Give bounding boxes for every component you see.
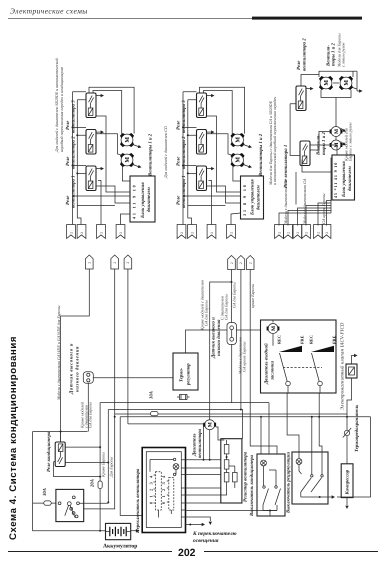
switch arm 1 (280, 353, 288, 381)
pivot contact 2 (318, 381, 323, 386)
svg-text:GA для Европы: GA для Европы (224, 294, 229, 320)
svg-text:торы 1 и 2: торы 1 и 2 (321, 132, 327, 155)
connector flag down 3 (GA) (293, 225, 302, 239)
wire lower stub A (183, 195, 241, 197)
wire A3 down to bus (127, 269, 129, 424)
wire relay1 to ECU top (311, 145, 338, 155)
svg-text:Модели с двигателями GA14DE и: Модели с двигателями GA14DE и GA16DE для… (56, 305, 61, 401)
resistor element 2 (224, 460, 229, 469)
connector flag down 2 (GA) (284, 225, 293, 239)
compressor ground arrow (346, 498, 348, 505)
svg-text:Термо-: Термо- (179, 367, 185, 382)
svg-text:GA кроме Европы: GA кроме Европы (321, 193, 326, 224)
relay R2 fan relay 2 (86, 130, 96, 155)
relay R1 arrow (96, 168, 103, 170)
wire flag3 to ECU (298, 208, 332, 226)
svg-text:Электрические схемы: Электрические схемы (10, 7, 88, 16)
wire flag2 to ECU (288, 211, 331, 226)
switch wafer 1 (dashed) (156, 472, 162, 510)
wire B3 down to AC switch (250, 270, 277, 455)
svg-text:Переключатель вентилятора: Переключатель вентилятора (135, 468, 141, 534)
connector flag 1 down (67, 225, 76, 239)
wire left loop: battery feed (33, 431, 88, 433)
ECU box Блок управления двигателем (GA) (332, 155, 355, 200)
recirc internal wires (299, 452, 327, 497)
ECU box Блок управления двигателем (CD) (241, 176, 264, 219)
svg-text:Для Европы: Для Европы (109, 456, 114, 478)
ignition contacts (58, 502, 61, 505)
svg-text:вентилятора 1: вентилятора 1 (181, 175, 187, 208)
svg-text:Блок управления: Блок управления (341, 161, 347, 198)
svg-text:Реле: Реле (176, 120, 182, 130)
connector flag 2 down (77, 225, 86, 239)
connector flag 2 down (188, 225, 197, 239)
wire flag3 up to R1 coil (209, 181, 212, 225)
wire lower stub A (73, 195, 131, 197)
relay fan relay 2 (296, 86, 306, 111)
svg-text:10А: 10А (149, 391, 155, 399)
connector flag down 1 (GA) (275, 225, 284, 239)
footer rule right (204, 551, 378, 553)
svg-text:вентилятора: вентилятора (198, 428, 203, 458)
fuse 10A (151, 411, 158, 415)
svg-text:202: 202 (178, 547, 196, 559)
wire R2 to motor2 (96, 134, 122, 155)
fan motor 1 arrow (242, 144, 250, 147)
lamp in fan switch (173, 464, 179, 470)
svg-text:Датчик высокого и: Датчик высокого и (69, 343, 75, 395)
bus taps to recirc (311, 417, 313, 452)
relay R2 arrow (96, 131, 103, 133)
wire B2 down to bus (240, 270, 242, 410)
wire riser to flags bundle (295, 172, 297, 205)
M motor 2 (330, 140, 343, 150)
blower motor Двигатель вентилятора (203, 420, 216, 430)
pivot contact 1 (286, 381, 291, 386)
relay R3 arrow (207, 95, 214, 97)
connector flag 3 down (97, 225, 106, 239)
fan motor 1 (120, 133, 134, 147)
svg-text:двигателем: двигателем (347, 165, 353, 191)
up connector flag B2 (237, 256, 245, 270)
svg-text:30А: 30А (42, 488, 48, 497)
svg-text:двигателем: двигателем (146, 186, 152, 212)
wire loop top B (93, 91, 122, 135)
svg-text:Вентиляторы 1 и 2: Вентиляторы 1 и 2 (148, 133, 154, 177)
wire left vertical 1 to flag1 (73, 92, 87, 225)
fan motor right (crossed) (339, 76, 353, 90)
wire M motors left feed (311, 132, 331, 151)
svg-text:GA для Европы: GA для Европы (204, 300, 209, 326)
battery right arrow (131, 530, 137, 532)
relay R3 fan relay 3 (CD) (197, 93, 207, 118)
connector flag 4 down (116, 225, 125, 239)
bundle riser into ECU (331, 158, 332, 213)
wire flag4 to ECU (306, 206, 331, 226)
wire pivot1 down to recirc switch (287, 386, 299, 452)
svg-text:Европы с левым рулем: Европы с левым рулем (348, 122, 353, 162)
wire A1 down, bend left, down to AC relay (61, 269, 90, 442)
relay R2 arrow (207, 131, 214, 133)
svg-text:41 11 9 10: 41 11 9 10 (132, 183, 137, 219)
wire flag4 up to ECU pin (121, 214, 131, 225)
svg-text:Реле: Реле (65, 195, 71, 205)
svg-text:двигателем: двигателем (256, 184, 262, 210)
up connector flag A2 (111, 255, 119, 269)
battery internal wire (106, 531, 131, 533)
bus y414 with 10A fuse (115, 413, 347, 415)
svg-text:Реле: Реле (65, 120, 71, 130)
relay fan relay 1 (300, 141, 310, 166)
wire flag5 to ECU (318, 203, 331, 226)
wire pivot2 down to bus (319, 386, 322, 452)
up connector flag A3 (124, 255, 132, 269)
AC switch internal wires (263, 466, 277, 511)
svg-text:Выключатель кондиционера: Выключатель кондиционера (249, 454, 255, 517)
svg-text:FRE: FRE (300, 335, 305, 344)
solenoid valve box IACV-FICD (346, 364, 357, 378)
svg-text:Блок управления: Блок управления (140, 182, 146, 219)
M motor 1 (330, 127, 343, 137)
valve top arrow (352, 356, 357, 365)
svg-text:0 1 2 3 4: 0 1 2 3 4 (161, 474, 166, 504)
svg-text:освещения: освещения (193, 538, 219, 544)
resistor element 3 (224, 473, 229, 482)
relay R3 fan relay 3 (86, 93, 96, 118)
svg-text:вентилятора 3: вентилятора 3 (181, 100, 187, 133)
wire relay top (60, 432, 62, 443)
relay R1 fan relay 1 (CD) (197, 166, 207, 191)
ECU box Блок управления двигателем (130, 176, 155, 222)
svg-text:вентилятора 2: вентилятора 2 (302, 38, 308, 71)
wire lower stub B (77, 205, 115, 207)
svg-text:Резистор вентилятора: Резистор вентилятора (243, 451, 249, 502)
M motor 2 arrow (341, 142, 345, 145)
fan motor 2 arrow (132, 164, 140, 167)
wire motors bottom rail (321, 90, 351, 98)
relay R2 fan relay 2 (CD) (197, 130, 207, 155)
switch arm 2 (312, 353, 320, 381)
ignition arms (65, 505, 69, 516)
wire R1 right to ECU (96, 186, 130, 203)
terminals (173, 458, 175, 460)
M motor 1 arrow (341, 128, 345, 131)
connector flag down 6 (GA) (322, 225, 331, 239)
header rule thick (252, 17, 362, 20)
recirc switch arm 1 (301, 478, 312, 492)
svg-text:Схема 4. Система кондициониров: Схема 4. Система кондиционирования (8, 336, 19, 540)
svg-text:кроме Европы: кроме Европы (250, 284, 255, 308)
wire R1 right to ECU (207, 186, 241, 203)
svg-text:Модели с двигателем CD: Модели с двигателем CD (283, 180, 288, 225)
thermal protector symbol (344, 430, 349, 435)
fuse 30A (44, 501, 51, 505)
wires fan switch to resistor (186, 459, 204, 461)
resistor box Резистор вентилятора (221, 439, 242, 503)
right riser to recirc arrow line (337, 417, 371, 497)
bus y409.5 with bend to resistor (108, 410, 242, 439)
fan switch right pins (181, 460, 185, 517)
bus y423.9 (128, 424, 204, 460)
svg-text:Датчик высокого и: Датчик высокого и (211, 317, 217, 359)
wire left vertical 2 to flag2 (188, 100, 197, 225)
wire flag6 to ECU (327, 201, 332, 226)
AC switch lamp (261, 460, 267, 466)
svg-text:Электромагнитный клапан IACV-F: Электромагнитный клапан IACV-FICD (340, 322, 346, 410)
svg-text:REC: REC (277, 335, 282, 344)
AC switch contacts (263, 486, 265, 488)
battery cells (110, 527, 126, 537)
fan motor 2 arrow (242, 164, 250, 167)
up connector flag B1 (228, 256, 236, 270)
wire relay2 top to motors (301, 75, 319, 87)
wire lower stub B (188, 205, 226, 207)
connector flag down 4 (GA) (302, 225, 311, 239)
thermostat box Термо-регулятор (173, 353, 198, 390)
fan motor 2 (120, 153, 134, 167)
wire sensor2 down (87, 383, 89, 431)
svg-text:Реле: Реле (296, 60, 302, 70)
svg-text:Реле: Реле (65, 156, 71, 166)
svg-text:Блок управления: Блок управления (250, 179, 256, 216)
resistor internal wires (221, 440, 235, 495)
wire motor right to drop (353, 88, 358, 90)
bracket over fan motors (319, 71, 353, 77)
door motor circle (267, 324, 280, 334)
wire sensor1 right to door box (236, 329, 260, 331)
svg-text:GA для Европы: GA для Европы (88, 402, 93, 428)
bus y402.6 (100, 402, 269, 404)
thermo sensor probe symbol (180, 395, 188, 400)
fan motor 1 arrow (132, 144, 140, 147)
recirc lamp (296, 459, 302, 465)
svg-text:Аккумулятор: Аккумулятор (103, 544, 137, 550)
wire between motors (333, 82, 339, 84)
wire door motor feed (272, 320, 274, 346)
relay 2 arrow (306, 88, 312, 90)
svg-text:регулятор: регулятор (187, 363, 192, 386)
wire flag3 up to R1 coil (98, 181, 101, 225)
wire R2 to motor2 (207, 134, 233, 155)
internal wires (150, 460, 176, 518)
connector flag 4 down (227, 225, 236, 239)
connector flag down 5 (GA) (314, 225, 323, 239)
svg-text:45 *11 41 9 10: 45 *11 41 9 10 (333, 162, 338, 198)
svg-text:Реле: Реле (176, 195, 182, 205)
AC switch box Выключатель кондиционера (257, 454, 285, 516)
svg-text:Вентиляторы 1 и 2: Вентиляторы 1 и 2 (258, 133, 264, 177)
fan motor 2 (CD) (231, 153, 245, 167)
svg-text:низкого давления: низкого давления (216, 319, 222, 356)
bracket right drop with arrow (357, 71, 360, 91)
bus y416.8 (120, 416, 370, 418)
svg-text:коробкой переключения передач: коробкой переключения передач и кондицио… (59, 66, 64, 152)
recirc contacts (311, 475, 313, 477)
svg-text:вентилятора 3: вентилятора 3 (71, 100, 77, 133)
svg-text:GA для Европы: GA для Европы (231, 282, 236, 308)
svg-text:вентилятора 2: вентилятора 2 (181, 136, 187, 169)
wire thermal to compressor (346, 436, 348, 464)
wire motor2 to ECU pin (233, 165, 241, 181)
svg-text:вентилятора 2: вентилятора 2 (71, 136, 77, 169)
recirc switch arm 2 (311, 478, 322, 492)
wire loop top B (204, 91, 233, 135)
fan motor 1 (CD) (231, 133, 245, 147)
svg-text:REC: REC (309, 335, 314, 344)
recirculation switch box Выключатель рециркуляции (292, 452, 328, 504)
wire battery to fuse (33, 502, 56, 504)
wire sensor1 left (186, 330, 228, 353)
wire R3 right to mid (96, 116, 130, 192)
up connector flag A1 (86, 255, 94, 269)
wire AC relay bottom loop to 20A line (54, 462, 101, 477)
svg-text:Термопредохранитель: Термопредохранитель (354, 404, 360, 452)
svg-text:Кроме Европы: Кроме Европы (100, 452, 105, 478)
connector flag 1 down (177, 225, 186, 239)
svg-text:0 1 2 3 4: 0 1 2 3 4 (148, 474, 153, 504)
pressure switch 1 (capsule) (227, 323, 236, 345)
svg-text:Двигатель: Двигатель (192, 433, 198, 457)
wedge REC/FRE 2 (311, 346, 334, 352)
wire R3 right to mid (207, 116, 241, 192)
wire left riser (290, 104, 300, 156)
wire motor2 to ECU pin (122, 165, 130, 181)
wire valve down (347, 378, 352, 430)
wire loop top A (89, 87, 134, 133)
svg-text:Для моделей с двигателем CD: Для моделей с двигателем CD (163, 126, 168, 179)
svg-text:заслонки: заслонки (271, 361, 276, 381)
switch wafer 2 (dashed) (169, 478, 174, 511)
svg-text:и автоматической коробкой пере: и автоматической коробкой переключения п… (272, 97, 277, 185)
footer rule left (8, 551, 172, 553)
battery box (106, 523, 131, 539)
wire blower to resistor (216, 427, 224, 440)
up connector flag B3 (246, 256, 254, 270)
ignition switch box (56, 489, 84, 521)
wire relay right contacts (65, 446, 100, 448)
svg-text:Выключатель рециркуляции: Выключатель рециркуляции (286, 452, 292, 514)
svg-text:Модели с двигателями GA: Модели с двигателями GA (302, 178, 307, 225)
resistor element 1 (224, 445, 229, 454)
wire relay1 down to ECU left (302, 160, 332, 173)
recirc exit arrow (327, 496, 332, 498)
dashed link (283, 367, 322, 369)
wedge REC/FRE 1 (279, 346, 302, 352)
svg-text:с левым рулем: с левым рулем (341, 42, 346, 67)
wire thermostat left feed (93, 377, 173, 379)
AC relay Реле кондиционера (55, 442, 65, 467)
wire M motors link (335, 98, 337, 141)
relay R3 arrow (96, 95, 103, 97)
fan motor left (crossed) (319, 76, 333, 90)
relay R1 arrow (207, 168, 214, 170)
wire left vertical 1 to flag1 (183, 92, 197, 225)
svg-text:К переключателю: К переключателю (192, 531, 237, 537)
wire A2 down to bus (114, 269, 116, 414)
ignition right wires (79, 502, 108, 504)
wire B1 down to bus + branch to blower motor (231, 270, 233, 403)
svg-text:Компрессор: Компрессор (345, 469, 351, 495)
wires fan switch lower right (186, 510, 278, 512)
left bends down (99, 403, 101, 531)
svg-text:Реле кондиционера: Реле кондиционера (46, 431, 52, 472)
compressor box (341, 464, 353, 498)
fan switch box Переключатель вентилятора (142, 448, 185, 533)
svg-text:Реле: Реле (176, 156, 182, 166)
pressure switch 2 (capsule) (83, 372, 93, 384)
svg-text:20А: 20А (90, 479, 96, 488)
wire left vertical 2 to flag2 (77, 100, 86, 225)
svg-text:низкого давления: низкого давления (75, 346, 81, 392)
wafer ticks (154, 475, 156, 503)
svg-text:GA кроме Европы: GA кроме Европы (242, 341, 247, 372)
wire loop top A (200, 87, 245, 133)
svg-text:вентилятора 1: вентилятора 1 (71, 175, 77, 208)
resistor element 4 (233, 473, 238, 482)
intake door motor box Двигатель входной заслонки (261, 320, 337, 393)
connector flag 3 down (207, 225, 216, 239)
header rule thin (8, 18, 252, 20)
svg-text:FRE: FRE (332, 335, 337, 344)
relay R1 fan relay 1 (86, 166, 96, 191)
wire flag1 to ECU (279, 213, 331, 226)
fuse 20A (98, 481, 102, 489)
svg-text:Двигатель входной: Двигатель входной (264, 343, 270, 385)
svg-text:31 8 9 10: 31 8 9 10 (242, 183, 247, 216)
wire flag4 up to ECU pin (231, 213, 241, 225)
